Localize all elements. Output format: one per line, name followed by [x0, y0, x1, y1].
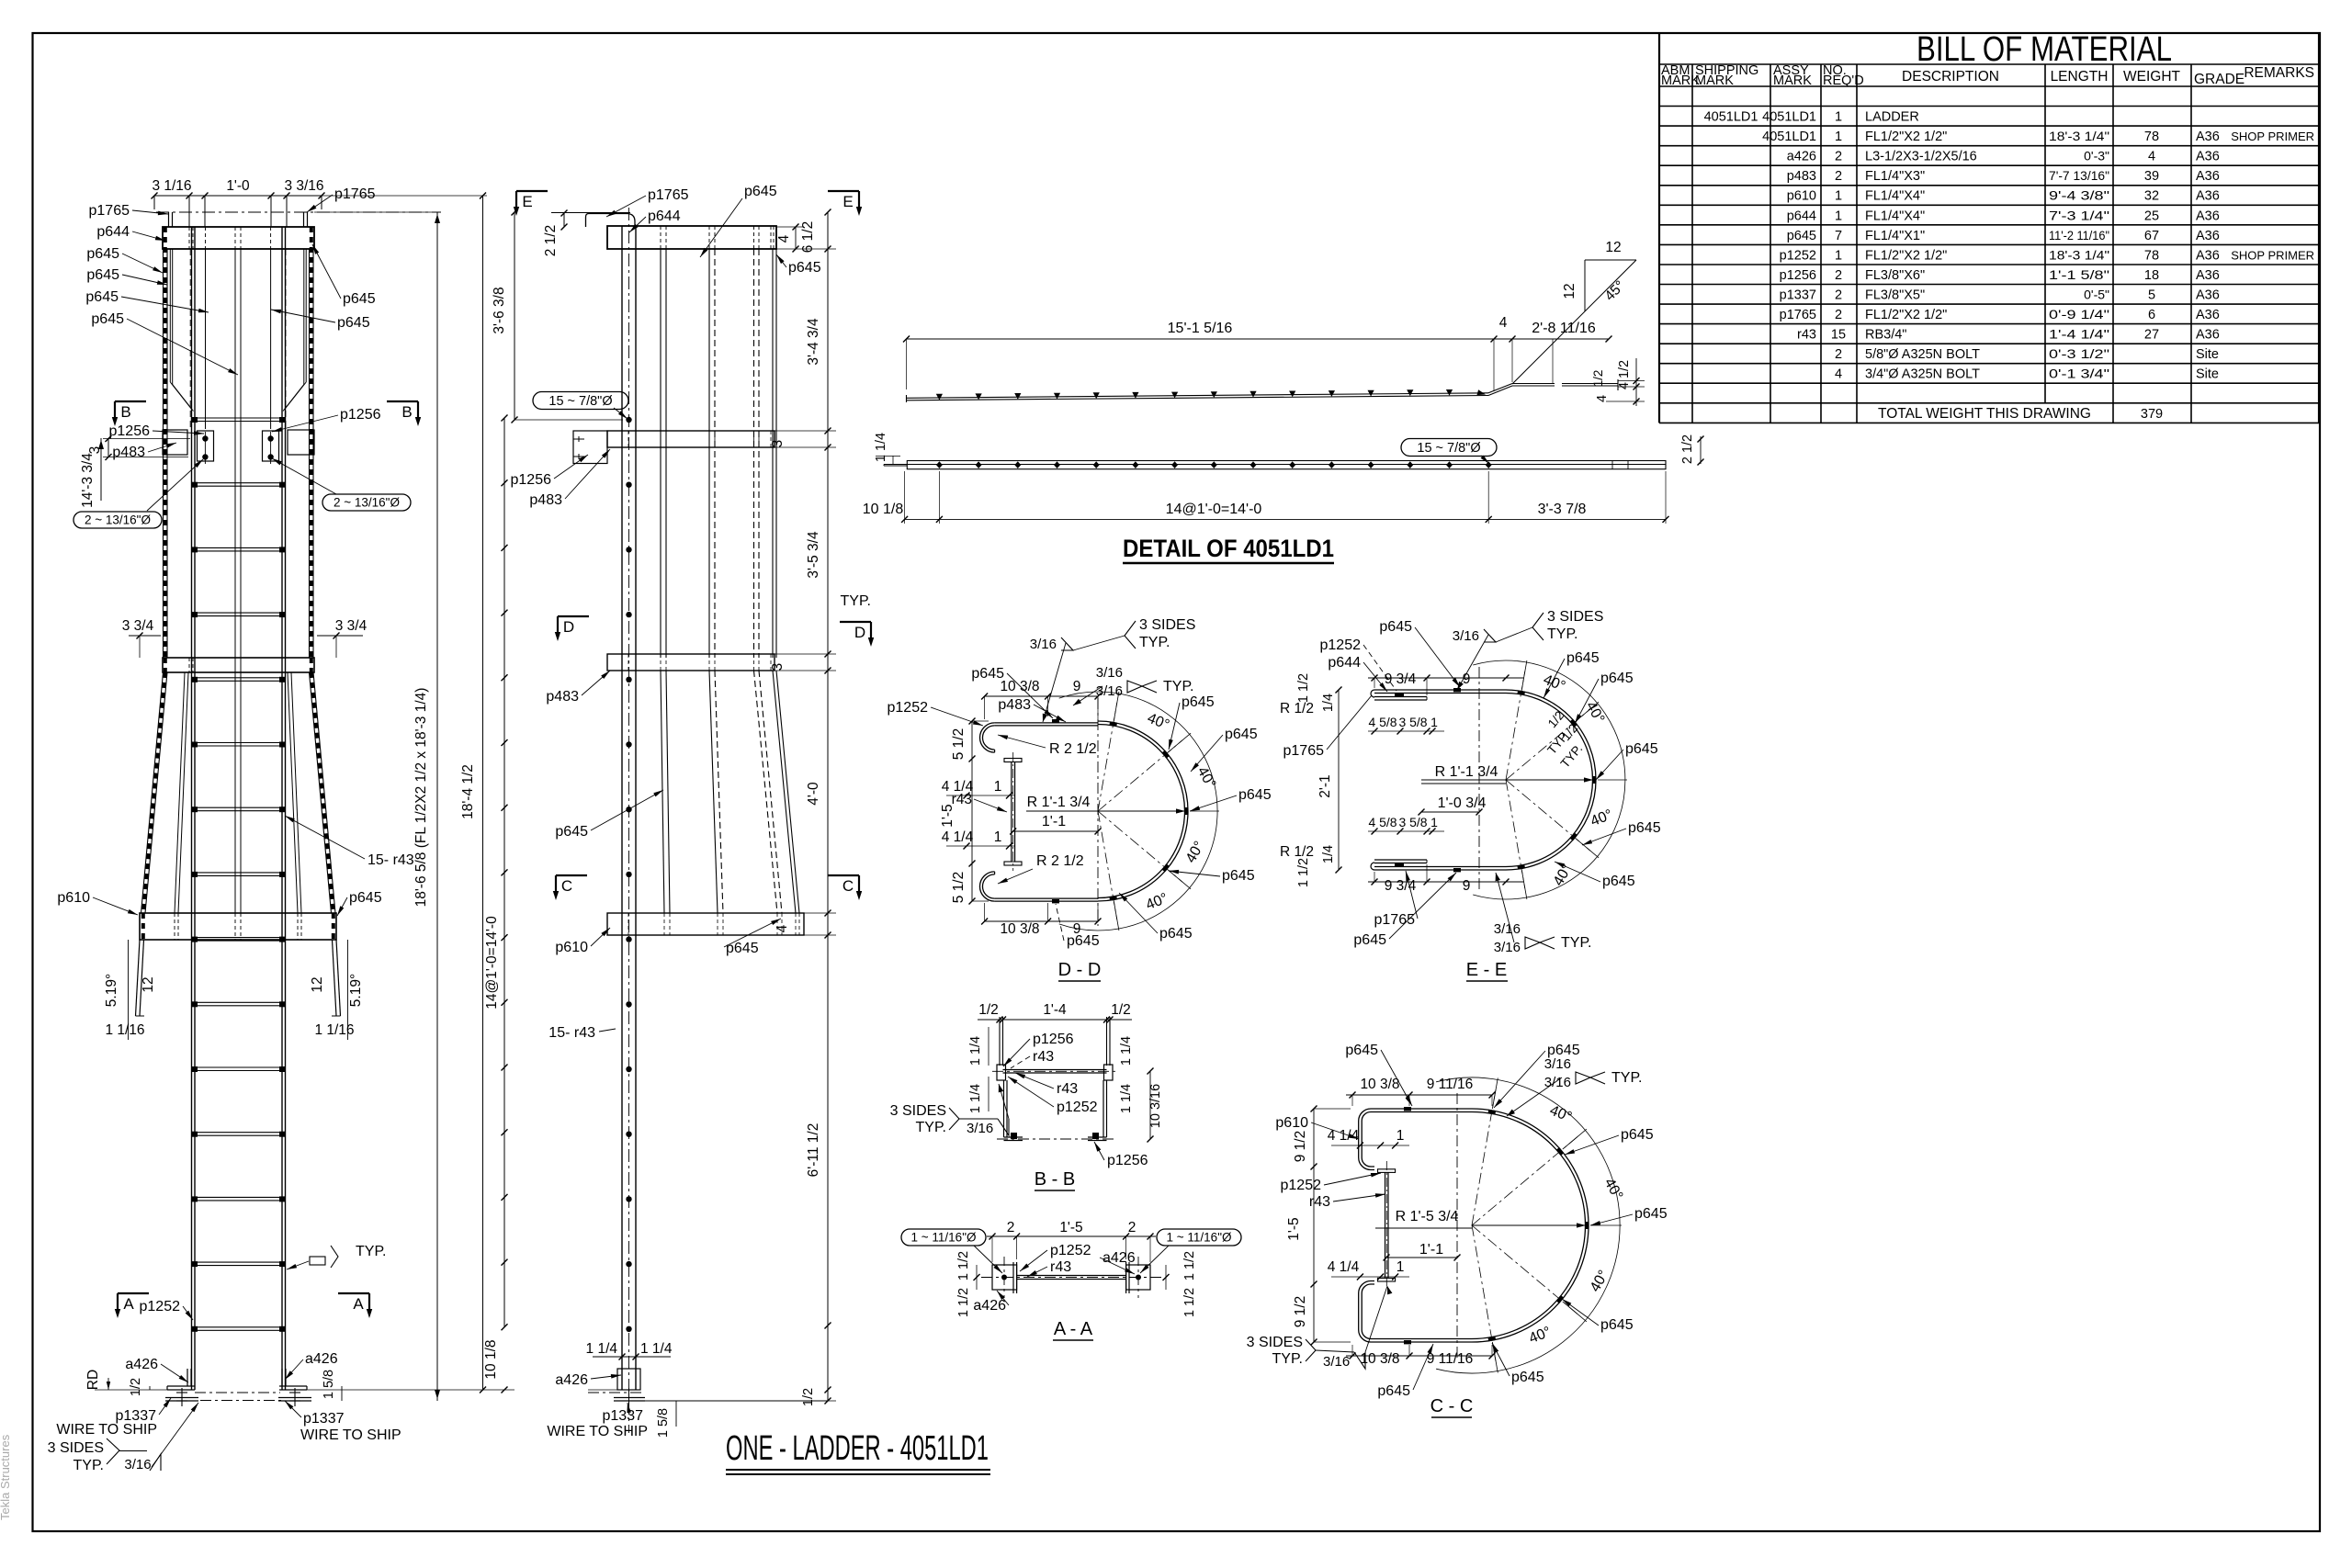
svg-text:1: 1 — [1835, 248, 1842, 263]
svg-text:1 5/8: 1 5/8 — [322, 1370, 336, 1399]
svg-text:5.19°: 5.19° — [348, 974, 364, 1007]
svg-text:p1252: p1252 — [140, 1299, 181, 1314]
svg-text:1 1/4: 1 1/4 — [968, 1084, 983, 1113]
svg-text:0'-3 1/2": 0'-3 1/2" — [2049, 346, 2109, 361]
svg-text:1: 1 — [1396, 1259, 1405, 1275]
svg-text:9: 9 — [1073, 921, 1081, 937]
svg-text:5 1/2: 5 1/2 — [951, 728, 967, 760]
svg-text:p645: p645 — [1600, 1317, 1634, 1333]
svg-text:p1765: p1765 — [89, 203, 130, 219]
svg-text:3/16: 3/16 — [1494, 921, 1521, 937]
svg-text:7: 7 — [1835, 229, 1842, 243]
svg-text:3 5/8: 3 5/8 — [1399, 815, 1428, 829]
svg-text:1'-4 1/4": 1'-4 1/4" — [2049, 327, 2109, 342]
svg-text:Site: Site — [2196, 367, 2219, 382]
svg-text:15'-1 5/16: 15'-1 5/16 — [1168, 321, 1233, 336]
svg-text:FL1/2"X2 1/2": FL1/2"X2 1/2" — [1865, 130, 1947, 144]
svg-text:18: 18 — [2144, 268, 2159, 283]
svg-text:4 1/4: 4 1/4 — [1328, 1259, 1360, 1275]
svg-text:C: C — [561, 877, 572, 895]
svg-text:2 ~ 13/16"Ø: 2 ~ 13/16"Ø — [85, 513, 151, 527]
svg-text:1 1/4: 1 1/4 — [640, 1341, 673, 1357]
svg-text:2: 2 — [1835, 288, 1842, 303]
svg-text:3'-3 7/8: 3'-3 7/8 — [1538, 502, 1587, 517]
svg-text:3/16: 3/16 — [1323, 1354, 1350, 1370]
svg-text:1: 1 — [1835, 110, 1842, 125]
svg-text:E: E — [842, 193, 853, 210]
svg-text:p645: p645 — [1182, 694, 1215, 710]
svg-text:3 5/8: 3 5/8 — [1399, 715, 1428, 729]
svg-text:TYP.: TYP. — [1611, 1070, 1643, 1086]
svg-text:3 SIDES: 3 SIDES — [890, 1103, 946, 1119]
svg-text:14@1'-0=14'-0: 14@1'-0=14'-0 — [484, 916, 500, 1010]
svg-text:1'-1: 1'-1 — [1042, 814, 1066, 829]
svg-text:p645: p645 — [1238, 787, 1272, 803]
svg-text:p645: p645 — [86, 267, 119, 283]
svg-text:6: 6 — [2148, 308, 2155, 322]
svg-text:3/16: 3/16 — [1096, 665, 1123, 681]
svg-text:p645: p645 — [1377, 1383, 1410, 1399]
svg-text:a426: a426 — [1102, 1250, 1136, 1266]
svg-text:3 SIDES: 3 SIDES — [1139, 617, 1195, 633]
svg-text:r43: r43 — [1309, 1194, 1330, 1210]
svg-text:4 1/4: 4 1/4 — [942, 829, 974, 845]
svg-text:15- r43: 15- r43 — [548, 1025, 595, 1041]
svg-text:A36: A36 — [2196, 248, 2220, 263]
svg-text:p645: p645 — [1225, 727, 1258, 742]
svg-text:D: D — [563, 618, 574, 636]
svg-text:A36: A36 — [2196, 268, 2220, 283]
svg-text:a426: a426 — [305, 1351, 338, 1367]
svg-text:BILL OF MATERIAL: BILL OF MATERIAL — [1917, 30, 2172, 69]
svg-text:p645: p645 — [337, 315, 370, 331]
svg-text:TYP.: TYP. — [916, 1120, 947, 1135]
svg-text:1'-4: 1'-4 — [1043, 1002, 1067, 1018]
svg-text:TYP.: TYP. — [1272, 1351, 1304, 1367]
svg-text:1'-5: 1'-5 — [940, 804, 955, 827]
svg-text:REQ'D: REQ'D — [1823, 73, 1864, 88]
svg-text:p483: p483 — [529, 492, 562, 508]
svg-text:A - A: A - A — [1054, 1319, 1093, 1339]
svg-text:10 1/8: 10 1/8 — [863, 502, 904, 517]
svg-text:1 1/4: 1 1/4 — [874, 433, 888, 462]
svg-text:15- r43: 15- r43 — [367, 852, 414, 868]
svg-text:1 1/2: 1 1/2 — [956, 1251, 971, 1280]
svg-text:A36: A36 — [2196, 189, 2220, 204]
svg-text:4 1/4: 4 1/4 — [1328, 1128, 1360, 1144]
svg-text:Tekla Structures: Tekla Structures — [0, 1434, 12, 1520]
svg-text:9 11/16: 9 11/16 — [1427, 1077, 1474, 1092]
svg-text:p645: p645 — [726, 941, 759, 956]
svg-text:3: 3 — [770, 440, 786, 448]
svg-text:B - B: B - B — [1035, 1169, 1075, 1190]
svg-text:4: 4 — [2148, 150, 2155, 164]
svg-text:1/4: 1/4 — [1321, 694, 1336, 712]
svg-text:4 5/8: 4 5/8 — [1369, 715, 1397, 729]
svg-text:TYP.: TYP. — [1163, 679, 1194, 694]
svg-text:A36: A36 — [2196, 229, 2220, 243]
svg-text:DETAIL OF 4051LD1: DETAIL OF 4051LD1 — [1123, 535, 1334, 562]
svg-text:1: 1 — [1835, 209, 1842, 223]
svg-text:18'-3 1/4": 18'-3 1/4" — [2049, 247, 2109, 262]
svg-text:p645: p645 — [1067, 933, 1100, 949]
svg-text:A36: A36 — [2196, 150, 2220, 164]
svg-text:p483: p483 — [546, 689, 579, 705]
svg-text:3/16: 3/16 — [1544, 1075, 1571, 1090]
svg-text:4: 4 — [1835, 367, 1842, 382]
svg-text:p610: p610 — [1275, 1115, 1308, 1131]
svg-text:A36: A36 — [2196, 308, 2220, 322]
svg-text:2'-1: 2'-1 — [1317, 774, 1333, 797]
svg-text:3/16: 3/16 — [1453, 628, 1479, 644]
svg-text:1 1/4: 1 1/4 — [1119, 1084, 1134, 1113]
svg-text:WIRE TO SHIP: WIRE TO SHIP — [56, 1422, 157, 1438]
svg-text:p645: p645 — [1222, 868, 1255, 884]
svg-text:p1765: p1765 — [648, 187, 689, 203]
svg-text:3 3/4: 3 3/4 — [122, 618, 154, 634]
svg-text:18'-4 1/2: 18'-4 1/2 — [460, 764, 476, 819]
svg-text:5/8"Ø A325N BOLT: 5/8"Ø A325N BOLT — [1865, 347, 1980, 362]
svg-text:LADDER: LADDER — [1865, 110, 1919, 125]
svg-text:A: A — [123, 1295, 134, 1313]
svg-text:p1337: p1337 — [303, 1411, 345, 1427]
svg-text:4: 4 — [1499, 315, 1508, 331]
svg-text:p1256: p1256 — [340, 407, 381, 423]
svg-text:78: 78 — [2144, 248, 2159, 263]
svg-text:3/16: 3/16 — [1494, 940, 1521, 955]
svg-text:1 ~ 11/16"Ø: 1 ~ 11/16"Ø — [911, 1231, 977, 1245]
svg-text:p483: p483 — [998, 697, 1031, 713]
svg-text:1'-0: 1'-0 — [226, 178, 250, 194]
svg-text:3 SIDES: 3 SIDES — [1547, 609, 1603, 625]
svg-text:p645: p645 — [1625, 741, 1658, 757]
svg-text:p645: p645 — [1628, 820, 1661, 836]
svg-text:p645: p645 — [555, 824, 588, 840]
svg-text:MARK: MARK — [1773, 73, 1812, 88]
svg-text:0'-5": 0'-5" — [2084, 288, 2109, 302]
svg-text:4: 4 — [776, 234, 792, 243]
svg-text:FL1/4"X4": FL1/4"X4" — [1865, 189, 1925, 204]
svg-text:TOTAL WEIGHT THIS DRAWING: TOTAL WEIGHT THIS DRAWING — [1878, 406, 2091, 422]
svg-text:R 1/2: R 1/2 — [1280, 701, 1314, 716]
svg-text:TYP.: TYP. — [841, 593, 872, 609]
svg-text:FL1/4"X3": FL1/4"X3" — [1865, 169, 1925, 184]
svg-text:32: 32 — [2144, 189, 2159, 204]
svg-text:10 3/8: 10 3/8 — [1360, 1351, 1399, 1367]
svg-text:WIRE TO SHIP: WIRE TO SHIP — [547, 1424, 648, 1439]
svg-text:3/16: 3/16 — [1030, 637, 1057, 652]
svg-text:27: 27 — [2144, 328, 2159, 343]
svg-text:p1256: p1256 — [1107, 1153, 1148, 1168]
svg-text:p645: p645 — [1787, 229, 1816, 243]
svg-text:RD: RD — [85, 1370, 101, 1390]
svg-text:r43: r43 — [1057, 1081, 1078, 1097]
svg-text:12: 12 — [1562, 283, 1577, 299]
svg-text:p610: p610 — [555, 940, 588, 955]
svg-text:5 1/2: 5 1/2 — [951, 872, 967, 903]
svg-text:p645: p645 — [1566, 650, 1600, 666]
svg-text:p645: p645 — [788, 260, 821, 276]
svg-text:1'-1: 1'-1 — [1419, 1242, 1443, 1258]
svg-text:4 1/2: 4 1/2 — [1617, 360, 1632, 389]
svg-text:3/16: 3/16 — [1544, 1056, 1571, 1072]
svg-text:18'-6 5/8 (FL 1/2X2 1/2 x 18'-: 18'-6 5/8 (FL 1/2X2 1/2 x 18'-3 1/4) — [413, 688, 429, 908]
svg-text:12: 12 — [310, 976, 325, 992]
svg-text:R 1'-1 3/4: R 1'-1 3/4 — [1435, 764, 1498, 780]
svg-text:FL1/2"X2 1/2": FL1/2"X2 1/2" — [1865, 248, 1947, 263]
svg-text:p645: p645 — [85, 289, 119, 305]
svg-text:2: 2 — [1835, 150, 1842, 164]
svg-text:3/4"Ø A325N BOLT: 3/4"Ø A325N BOLT — [1865, 367, 1980, 382]
svg-text:p644: p644 — [648, 209, 681, 224]
svg-text:1 1/2: 1 1/2 — [1182, 1288, 1197, 1317]
svg-text:1: 1 — [1430, 815, 1438, 829]
svg-text:p1256: p1256 — [1033, 1032, 1074, 1047]
svg-text:6 1/2: 6 1/2 — [800, 221, 816, 253]
svg-text:p644: p644 — [96, 224, 130, 240]
svg-text:a426: a426 — [1787, 150, 1816, 164]
svg-text:R 1'-1 3/4: R 1'-1 3/4 — [1027, 795, 1091, 810]
svg-text:p645: p645 — [343, 291, 376, 307]
svg-text:2 1/2: 2 1/2 — [543, 225, 559, 256]
svg-text:R 1/2: R 1/2 — [1280, 844, 1314, 860]
svg-text:p1252: p1252 — [1281, 1178, 1322, 1193]
svg-text:1'-5: 1'-5 — [1286, 1217, 1302, 1240]
svg-text:D - D: D - D — [1058, 960, 1102, 980]
svg-text:TYP.: TYP. — [73, 1458, 105, 1473]
svg-text:10 3/8: 10 3/8 — [1360, 1077, 1399, 1092]
svg-text:9 11/16: 9 11/16 — [1427, 1351, 1474, 1367]
svg-text:9 1/2: 9 1/2 — [1293, 1131, 1308, 1162]
svg-text:p1252: p1252 — [1050, 1243, 1091, 1258]
svg-text:4051LD1: 4051LD1 — [1762, 130, 1816, 144]
svg-text:FL3/8"X5": FL3/8"X5" — [1865, 288, 1925, 303]
svg-text:9 1/2: 9 1/2 — [1293, 1296, 1308, 1327]
svg-text:p645: p645 — [1379, 619, 1412, 635]
svg-text:p1256: p1256 — [1780, 268, 1816, 283]
svg-text:p645: p645 — [1345, 1043, 1378, 1058]
svg-text:SHOP PRIMER: SHOP PRIMER — [2231, 248, 2314, 262]
svg-text:14'-3 3/4: 14'-3 3/4 — [80, 453, 96, 508]
svg-text:5.19°: 5.19° — [104, 974, 119, 1007]
svg-text:p645: p645 — [1353, 932, 1386, 948]
svg-text:p1765: p1765 — [1780, 308, 1816, 322]
svg-text:1 5/8: 1 5/8 — [656, 1408, 671, 1438]
svg-text:WIRE TO SHIP: WIRE TO SHIP — [300, 1427, 401, 1443]
svg-text:p645: p645 — [1511, 1370, 1544, 1385]
svg-text:9 3/4: 9 3/4 — [1385, 878, 1417, 894]
svg-text:2: 2 — [1835, 347, 1842, 362]
svg-text:3 3/4: 3 3/4 — [335, 618, 367, 634]
svg-text:4051LD1: 4051LD1 — [1762, 110, 1816, 125]
svg-text:p644: p644 — [1328, 655, 1361, 671]
svg-text:39: 39 — [2144, 169, 2159, 184]
svg-text:p645: p645 — [86, 246, 119, 262]
svg-text:p1252: p1252 — [1320, 637, 1362, 653]
svg-text:p645: p645 — [91, 311, 124, 327]
svg-text:2'-8 11/16: 2'-8 11/16 — [1532, 321, 1596, 336]
svg-text:MARK: MARK — [1661, 73, 1700, 88]
svg-text:1 1/4: 1 1/4 — [586, 1341, 618, 1357]
svg-text:78: 78 — [2144, 130, 2159, 144]
svg-text:2 1/2: 2 1/2 — [1680, 434, 1695, 464]
svg-text:REMARKS: REMARKS — [2244, 65, 2314, 81]
svg-text:D: D — [854, 624, 865, 641]
svg-text:10 3/8: 10 3/8 — [1000, 679, 1039, 694]
svg-text:379: 379 — [2141, 407, 2163, 422]
svg-text:3'-4 3/4: 3'-4 3/4 — [806, 318, 821, 366]
svg-text:3'-6 3/8: 3'-6 3/8 — [492, 287, 507, 333]
svg-text:1: 1 — [1835, 130, 1842, 144]
svg-text:6'-11 1/2: 6'-11 1/2 — [806, 1123, 821, 1178]
svg-text:B: B — [401, 403, 412, 421]
svg-text:1/2: 1/2 — [1111, 1002, 1131, 1018]
svg-text:2: 2 — [1835, 268, 1842, 283]
svg-text:18'-3 1/4": 18'-3 1/4" — [2049, 129, 2109, 143]
svg-text:FL1/4"X4": FL1/4"X4" — [1865, 209, 1925, 223]
svg-text:p1252: p1252 — [1057, 1100, 1098, 1115]
svg-text:R 2 1/2: R 2 1/2 — [1049, 741, 1097, 757]
svg-text:1'-5: 1'-5 — [1059, 1220, 1082, 1235]
svg-text:1 1/4: 1 1/4 — [1119, 1036, 1134, 1066]
svg-text:1 1/4: 1 1/4 — [968, 1036, 983, 1066]
svg-text:r43: r43 — [1797, 328, 1816, 343]
svg-text:p645: p645 — [1621, 1127, 1654, 1143]
svg-text:L3-1/2X3-1/2X5/16: L3-1/2X3-1/2X5/16 — [1865, 150, 1977, 164]
svg-text:2: 2 — [1835, 169, 1842, 184]
svg-text:3/16: 3/16 — [967, 1121, 993, 1136]
svg-text:2: 2 — [1835, 308, 1842, 322]
svg-text:p483: p483 — [112, 445, 145, 460]
svg-text:p1765: p1765 — [334, 186, 376, 202]
svg-text:SHOP PRIMER: SHOP PRIMER — [2231, 130, 2314, 143]
svg-text:TYP.: TYP. — [1547, 626, 1578, 642]
svg-text:p1337: p1337 — [1780, 288, 1816, 303]
svg-text:0'-3": 0'-3" — [2084, 149, 2109, 164]
svg-text:1 1/16: 1 1/16 — [105, 1022, 144, 1038]
svg-text:p483: p483 — [1787, 169, 1816, 184]
svg-text:p644: p644 — [1787, 209, 1816, 223]
svg-text:14@1'-0=14'-0: 14@1'-0=14'-0 — [1166, 502, 1262, 517]
svg-text:p1256: p1256 — [511, 472, 552, 488]
svg-text:FL1/4"X1": FL1/4"X1" — [1865, 229, 1925, 243]
svg-text:1: 1 — [1396, 1128, 1405, 1144]
svg-text:3: 3 — [770, 663, 786, 671]
svg-text:4051LD1: 4051LD1 — [1704, 110, 1758, 125]
svg-text:1: 1 — [1835, 189, 1842, 204]
svg-text:3/16: 3/16 — [1096, 683, 1123, 699]
svg-text:R 2 1/2: R 2 1/2 — [1036, 853, 1084, 869]
svg-text:25: 25 — [2144, 209, 2159, 223]
svg-text:1/2: 1/2 — [1591, 370, 1605, 388]
svg-text:15: 15 — [1831, 328, 1846, 343]
svg-text:3 3/16: 3 3/16 — [284, 178, 323, 194]
svg-text:p1765: p1765 — [1283, 743, 1325, 759]
svg-text:1 1/2: 1 1/2 — [1182, 1251, 1197, 1280]
svg-text:9'-4 3/8": 9'-4 3/8" — [2049, 188, 2109, 203]
svg-text:p645: p645 — [1159, 926, 1193, 942]
svg-text:1/2: 1/2 — [978, 1002, 999, 1018]
svg-text:TYP.: TYP. — [1561, 935, 1592, 951]
svg-text:LENGTH: LENGTH — [2051, 69, 2109, 85]
svg-text:2 ~ 13/16"Ø: 2 ~ 13/16"Ø — [334, 496, 400, 510]
svg-text:RB3/4": RB3/4" — [1865, 328, 1906, 343]
svg-text:1: 1 — [1430, 715, 1438, 729]
svg-text:1'-1 5/8": 1'-1 5/8" — [2049, 267, 2109, 282]
svg-text:TYP.: TYP. — [1139, 635, 1170, 650]
svg-text:1'-0 3/4: 1'-0 3/4 — [1438, 795, 1487, 811]
svg-text:7'-7 13/16": 7'-7 13/16" — [2049, 168, 2109, 183]
svg-text:1 1/2: 1 1/2 — [1296, 858, 1311, 887]
svg-text:A36: A36 — [2196, 288, 2220, 303]
svg-text:B: B — [120, 403, 130, 421]
svg-text:p610: p610 — [57, 890, 90, 906]
svg-text:a426: a426 — [125, 1357, 158, 1372]
svg-text:4'-0: 4'-0 — [806, 782, 821, 806]
svg-text:11'-2 11/16": 11'-2 11/16" — [2049, 228, 2109, 243]
svg-text:1 1/2: 1 1/2 — [956, 1288, 971, 1317]
svg-text:12: 12 — [141, 976, 156, 992]
svg-text:9: 9 — [1073, 679, 1081, 694]
svg-text:1/2: 1/2 — [801, 1388, 816, 1406]
svg-text:3 SIDES: 3 SIDES — [48, 1440, 104, 1456]
svg-text:3 1/16: 3 1/16 — [152, 178, 191, 194]
svg-text:A36: A36 — [2196, 328, 2220, 343]
svg-text:TYP.: TYP. — [356, 1244, 387, 1259]
svg-text:C: C — [842, 877, 854, 895]
svg-text:1 1/2: 1 1/2 — [1296, 673, 1311, 703]
svg-text:2: 2 — [1007, 1220, 1015, 1235]
svg-text:p1256: p1256 — [109, 423, 151, 439]
svg-text:0'-1 3/4": 0'-1 3/4" — [2049, 367, 2109, 381]
svg-text:1: 1 — [994, 829, 1002, 845]
svg-text:p1337: p1337 — [603, 1408, 644, 1424]
svg-text:7'-3 1/4": 7'-3 1/4" — [2049, 208, 2109, 222]
svg-text:p1252: p1252 — [888, 700, 929, 716]
svg-text:9: 9 — [1463, 878, 1471, 894]
svg-text:E: E — [522, 193, 532, 210]
svg-text:1: 1 — [994, 779, 1002, 795]
svg-text:10 1/8: 10 1/8 — [483, 1339, 499, 1379]
svg-text:FL1/2"X2 1/2": FL1/2"X2 1/2" — [1865, 308, 1947, 322]
svg-text:A36: A36 — [2196, 209, 2220, 223]
svg-text:12: 12 — [1605, 240, 1621, 255]
svg-text:WEIGHT: WEIGHT — [2123, 69, 2181, 85]
svg-text:p610: p610 — [1787, 189, 1816, 204]
svg-text:p1252: p1252 — [1780, 248, 1816, 263]
svg-text:r43: r43 — [1050, 1259, 1071, 1275]
svg-text:a426: a426 — [973, 1298, 1006, 1314]
svg-text:10 3/8: 10 3/8 — [1000, 921, 1039, 937]
svg-text:15 ~ 7/8"Ø: 15 ~ 7/8"Ø — [1417, 441, 1480, 456]
svg-text:4: 4 — [775, 924, 790, 932]
svg-text:3'-5 3/4: 3'-5 3/4 — [806, 531, 821, 579]
svg-text:DESCRIPTION: DESCRIPTION — [1902, 69, 1999, 85]
svg-text:5: 5 — [2148, 288, 2155, 303]
svg-text:3/16: 3/16 — [124, 1457, 151, 1472]
svg-text:1/2: 1/2 — [129, 1378, 143, 1396]
svg-text:E - E: E - E — [1466, 960, 1507, 980]
svg-text:3 SIDES: 3 SIDES — [1247, 1335, 1303, 1350]
svg-text:p645: p645 — [1600, 671, 1634, 686]
svg-text:1/4: 1/4 — [1321, 845, 1336, 863]
svg-text:1 ~ 11/16"Ø: 1 ~ 11/16"Ø — [1167, 1231, 1232, 1245]
svg-text:A: A — [353, 1295, 364, 1313]
svg-text:GRADE: GRADE — [2194, 72, 2245, 87]
svg-text:67: 67 — [2144, 229, 2159, 243]
svg-text:MARK: MARK — [1695, 73, 1734, 88]
svg-text:FL3/8"X6": FL3/8"X6" — [1865, 268, 1925, 283]
